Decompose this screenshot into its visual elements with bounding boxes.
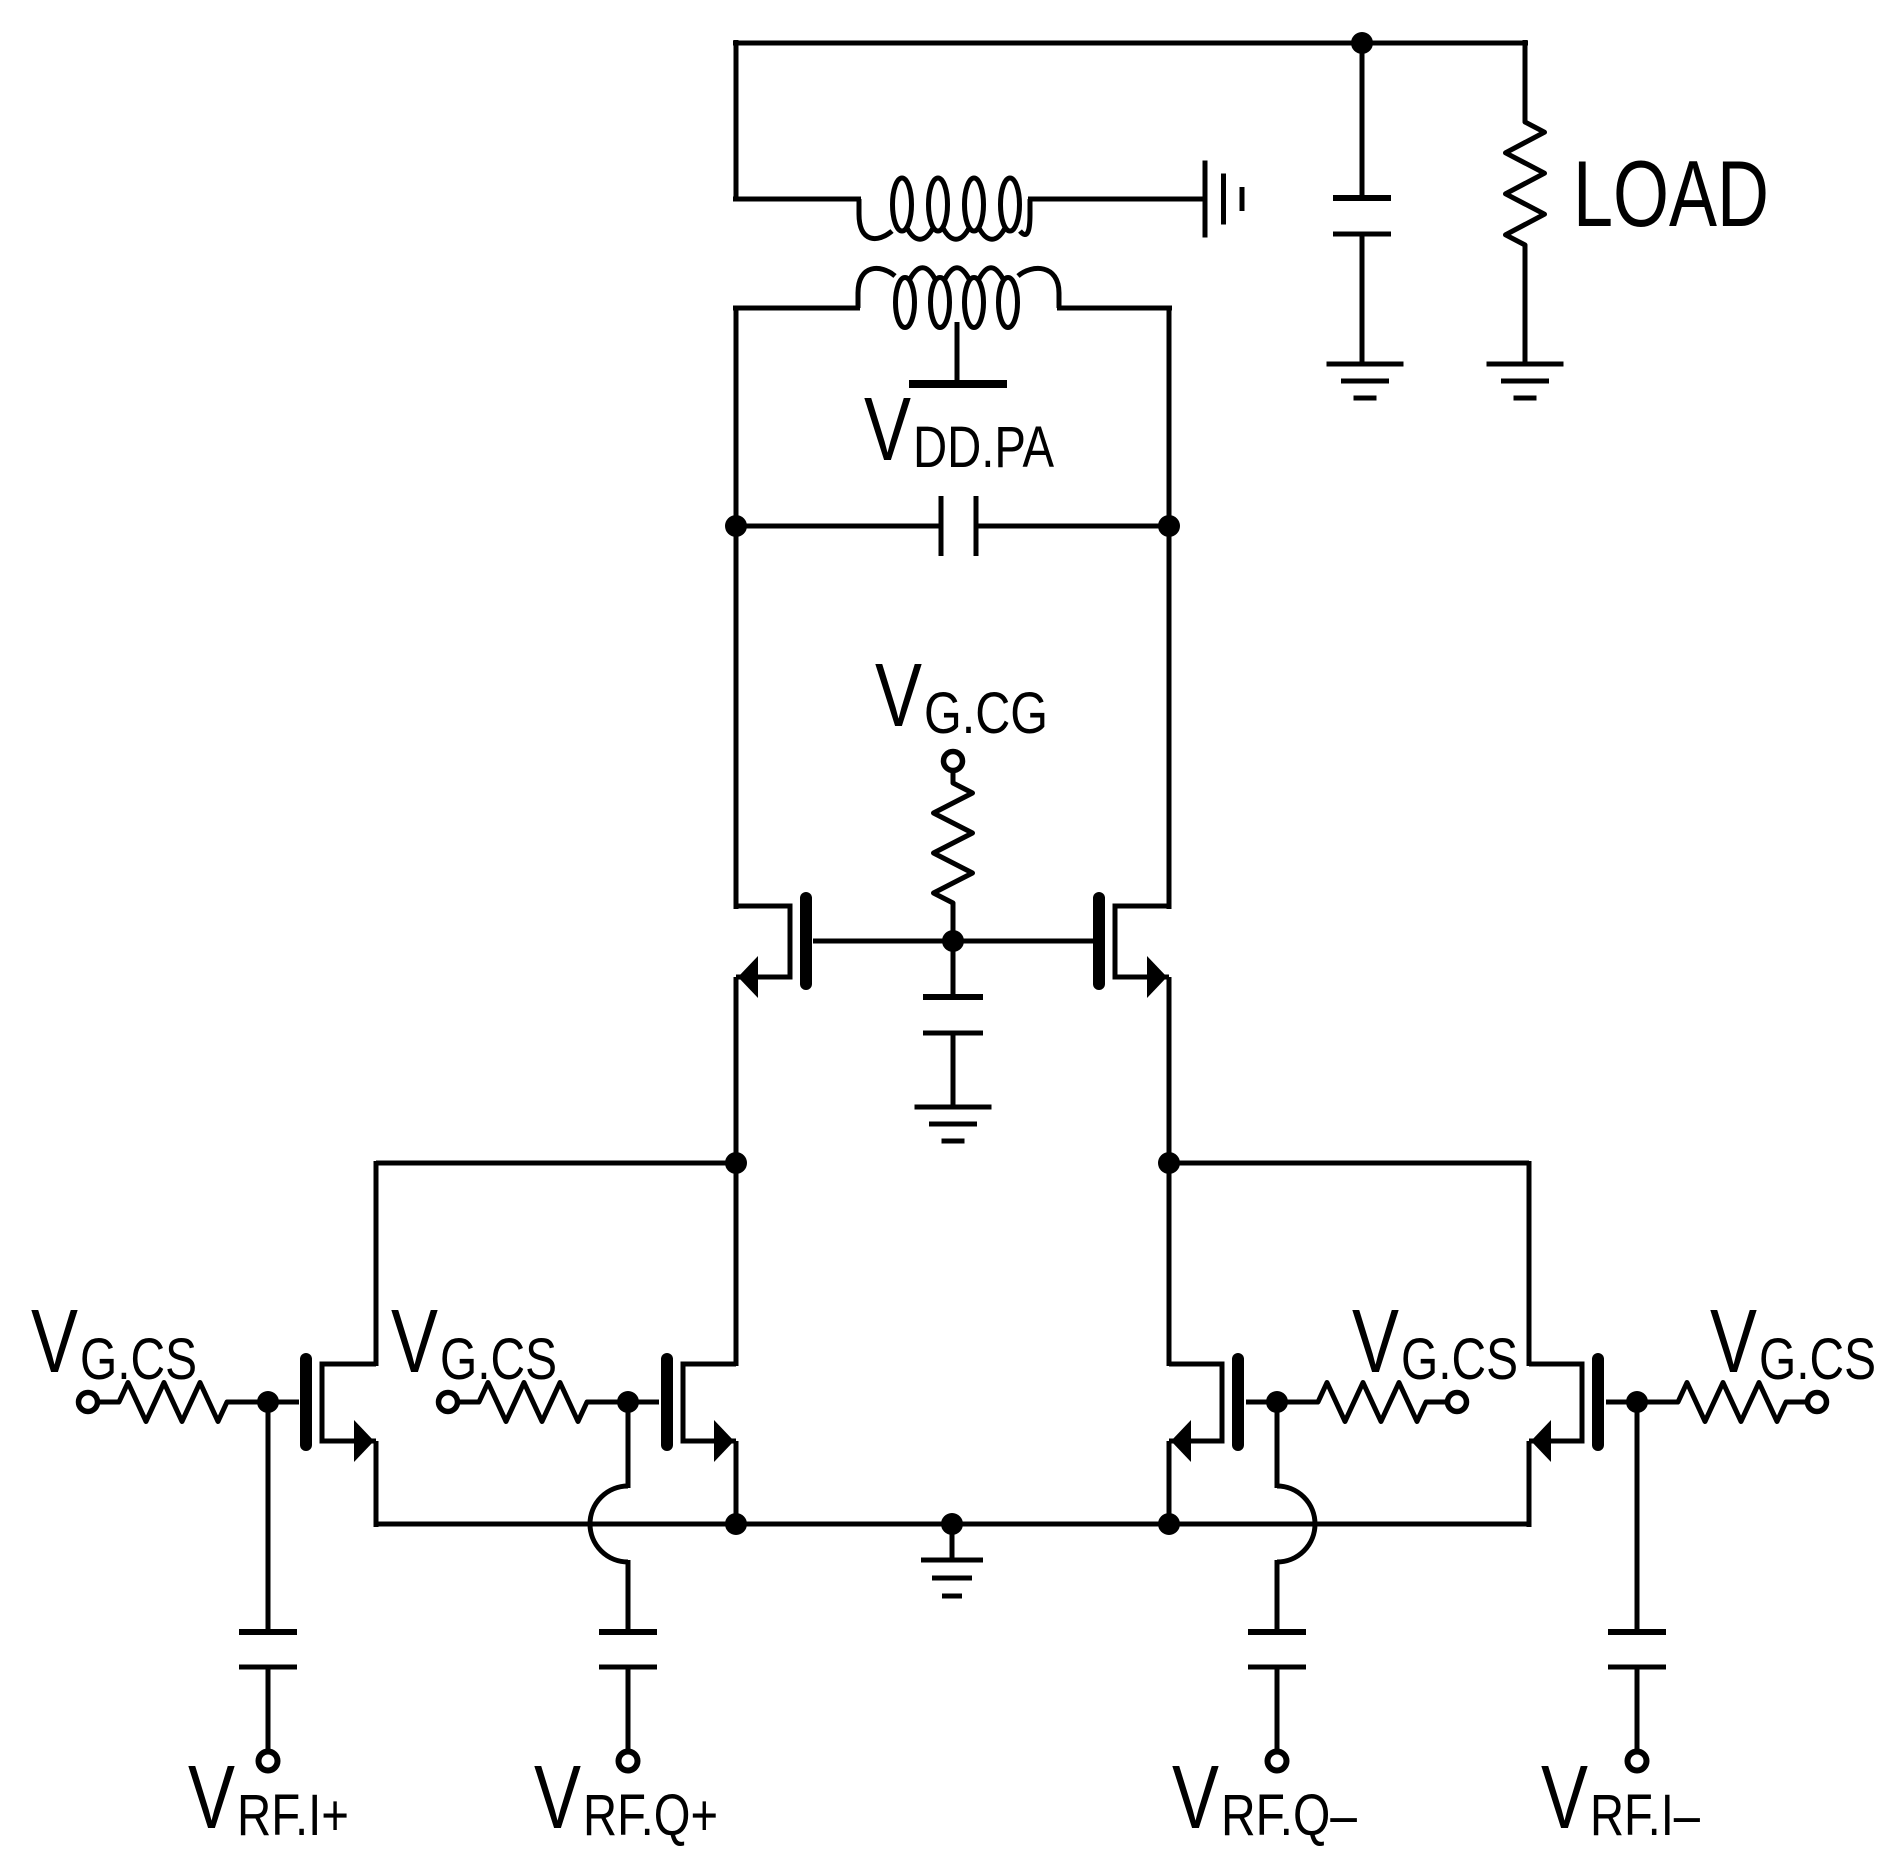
- wire resistor to gate node: [951, 903, 956, 941]
- wire M2 source drop: [1527, 1441, 1532, 1527]
- resistor R_G (Q-): [1318, 1383, 1426, 1422]
- transistor M4 (cascode right, NMOS): [1099, 898, 1169, 998]
- svg-text:RF.Q–: RF.Q–: [1221, 1783, 1358, 1848]
- wire M1 drain rail: [374, 1161, 379, 1366]
- svg-text:V: V: [875, 646, 922, 746]
- transistor M3 (cascode left, NMOS): [736, 898, 806, 998]
- wire primary left: [733, 306, 860, 311]
- resistor R_G (Q+): [479, 1383, 587, 1422]
- capacitor C_c (I+): [239, 1632, 297, 1667]
- wire cap to terminal: [266, 1667, 271, 1752]
- wire hop (Q- over source rail): [1277, 1486, 1315, 1562]
- wire right drain bus: [1169, 1161, 1529, 1166]
- label VG.CS (Q+): [391, 1292, 557, 1392]
- svg-text:V: V: [534, 1748, 581, 1848]
- wire hop to cap: [626, 1560, 631, 1632]
- terminal VRF.I+: [259, 1752, 278, 1771]
- label VRF.I+: [188, 1748, 349, 1848]
- svg-text:V: V: [864, 380, 911, 480]
- label VDD.PA: [864, 380, 1054, 480]
- node: I+ gate: [257, 1391, 279, 1413]
- ground (main): [921, 1560, 983, 1596]
- ground (LOAD): [1487, 364, 1564, 398]
- svg-text:G.CG: G.CG: [924, 681, 1048, 746]
- transistor M1 (I+, NMOS): [306, 1359, 376, 1462]
- wire hop (Q+ over source rail): [590, 1486, 628, 1562]
- svg-text:V: V: [31, 1292, 78, 1392]
- ground (output cap): [1327, 364, 1404, 398]
- wire cap to terminal: [626, 1667, 631, 1752]
- resistor R_G (I+): [119, 1383, 227, 1422]
- wire to LOAD resistor: [1523, 40, 1528, 122]
- inductor L2 transformer secondary: [859, 178, 1030, 239]
- node: source rail center: [941, 1513, 963, 1535]
- ground (gate bypass): [915, 1107, 992, 1141]
- svg-text:V: V: [1352, 1292, 1399, 1392]
- wire junction to output cap: [1360, 43, 1365, 198]
- svg-text:RF.I–: RF.I–: [1590, 1783, 1701, 1848]
- resistor R_G.CG: [934, 783, 973, 903]
- svg-text:V: V: [1172, 1748, 1219, 1848]
- node: cascode gate: [942, 930, 964, 952]
- svg-text:V: V: [391, 1292, 438, 1392]
- label VRF.Q+: [534, 1748, 718, 1848]
- wire bypass cap to ground: [951, 1033, 956, 1107]
- node: top output junction: [1351, 32, 1373, 54]
- terminal VG.CS Q-: [1448, 1393, 1467, 1412]
- capacitor C_out (to ground): [1333, 198, 1391, 234]
- terminal VRF.I-: [1628, 1752, 1647, 1771]
- wire MQ- source drop: [1167, 1441, 1172, 1527]
- wire gate to R: [1246, 1400, 1318, 1405]
- terminal VRF.Q-: [1268, 1752, 1287, 1771]
- svg-text:LOAD: LOAD: [1573, 141, 1769, 246]
- inductor L1 transformer primary: [858, 268, 1059, 328]
- wire Q+ gate down: [626, 1402, 631, 1488]
- wire right cascode source rail: [1167, 977, 1172, 1366]
- wire gate node to bypass cap: [951, 941, 956, 997]
- transistor MQ- (NMOS): [1169, 1359, 1238, 1462]
- terminal VG.CS I-: [1808, 1393, 1827, 1412]
- capacitor C_mid (across primary): [941, 496, 976, 556]
- svg-text:V: V: [1541, 1748, 1588, 1848]
- wire primary center tap: [955, 322, 960, 381]
- wire mid cap right: [976, 524, 1169, 529]
- wire left drop to secondary: [734, 40, 739, 201]
- svg-text:RF.Q+: RF.Q+: [583, 1783, 718, 1848]
- node: left rail / cap: [725, 515, 747, 537]
- svg-text:V: V: [1710, 1292, 1757, 1392]
- wire to mid cap left: [736, 524, 941, 529]
- svg-text:G.CS: G.CS: [80, 1327, 197, 1392]
- transistor MQ+ (NMOS): [667, 1359, 736, 1462]
- wire cap to terminal: [1275, 1667, 1280, 1752]
- node: I- gate: [1626, 1391, 1648, 1413]
- resistor LOAD: [1506, 122, 1545, 245]
- terminal VG.CS I+: [79, 1393, 98, 1412]
- node: source rail left: [725, 1513, 747, 1535]
- wire M2 drain rail: [1527, 1161, 1532, 1366]
- label VRF.Q-: [1172, 1748, 1358, 1848]
- wire Q- gate down: [1275, 1402, 1280, 1488]
- capacitor C_c (Q+): [599, 1632, 657, 1667]
- svg-text:G.CS: G.CS: [1759, 1327, 1876, 1392]
- label VG.CS (I-): [1710, 1292, 1876, 1392]
- label VG.CS (I+): [31, 1292, 197, 1392]
- capacitor C_c (Q-): [1248, 1632, 1306, 1667]
- wire I- gate to cap: [1635, 1402, 1640, 1632]
- svg-text:G.CS: G.CS: [1401, 1327, 1518, 1392]
- wire cascode gate bus: [813, 939, 1093, 944]
- wire secondary left: [733, 197, 861, 202]
- wire left cascode source rail: [734, 977, 739, 1366]
- wire M1 source drop: [374, 1441, 379, 1527]
- wire MQ+ source drop: [734, 1441, 739, 1527]
- wire I+ gate to cap: [266, 1402, 271, 1632]
- terminal VG.CS Q+: [439, 1393, 458, 1412]
- wire common source rail: [376, 1522, 1529, 1527]
- svg-text:DD.PA: DD.PA: [913, 415, 1054, 480]
- power supply bar VDD.PA: [909, 380, 1007, 388]
- svg-text:G.CS: G.CS: [440, 1327, 557, 1392]
- node: source rail right: [1158, 1513, 1180, 1535]
- node: Q+ gate: [617, 1391, 639, 1413]
- wire top rail: [733, 41, 1528, 46]
- label VG.CG: [875, 646, 1048, 746]
- wire term to R: [96, 1400, 119, 1405]
- node: Q- gate: [1266, 1391, 1288, 1413]
- wire primary right: [1057, 306, 1172, 311]
- wire R to term: [1426, 1400, 1449, 1405]
- label VRF.I-: [1541, 1748, 1701, 1848]
- wire right rail (drain of cascode M4): [1167, 306, 1172, 909]
- wire LOAD to ground: [1523, 245, 1528, 364]
- resistor R_G (I-): [1678, 1383, 1786, 1422]
- wire hop to cap: [1275, 1560, 1280, 1632]
- terminal VG.CG: [944, 752, 963, 771]
- capacitor C_byp (gate bypass): [923, 997, 983, 1033]
- ground (secondary return, rotated): [1205, 161, 1242, 238]
- wire to main ground: [950, 1524, 955, 1560]
- wire R to gate: [587, 1400, 659, 1405]
- transistor M2 (I-, NMOS): [1529, 1359, 1598, 1462]
- terminal VRF.Q+: [619, 1752, 638, 1771]
- wire term to R: [456, 1400, 479, 1405]
- wire VG.CG terminal to resistor: [951, 770, 956, 783]
- wire left rail (drain of cascode M3): [734, 306, 739, 909]
- wire output cap to ground: [1360, 234, 1365, 364]
- wire cap to terminal: [1635, 1667, 1640, 1752]
- node: right pair drains: [1158, 1152, 1180, 1174]
- wire left drain bus: [376, 1161, 736, 1166]
- wire R to term: [1786, 1400, 1809, 1405]
- label VG.CS (Q-): [1352, 1292, 1518, 1392]
- node: right rail / cap: [1158, 515, 1180, 537]
- wire R to gate: [227, 1400, 299, 1405]
- wire secondary right to ground: [1028, 197, 1203, 202]
- svg-text:RF.I+: RF.I+: [237, 1783, 349, 1848]
- svg-text:V: V: [188, 1748, 235, 1848]
- capacitor C_c (I-): [1608, 1632, 1666, 1667]
- node: left pair drains: [725, 1152, 747, 1174]
- wire gate to R: [1606, 1400, 1678, 1405]
